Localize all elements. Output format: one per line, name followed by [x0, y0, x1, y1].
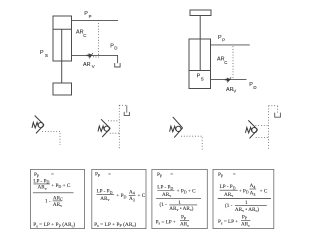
cylinder body right figure [189, 39, 211, 89]
piston rod right figure [199, 16, 201, 71]
svg-text:C: C [83, 33, 86, 38]
tank symbol left figure [115, 63, 120, 67]
pilot lines check valve 4 [255, 106, 277, 150]
svg-text:A3: A3 [250, 191, 256, 197]
piston rod left figure [61, 29, 63, 83]
table box 2 [92, 169, 146, 228]
svg-text:PP: PP [181, 215, 187, 221]
svg-text:D: D [114, 46, 117, 51]
svg-text:=: = [51, 172, 54, 178]
svg-text:ARv • ARc): ARv • ARc) [169, 205, 193, 212]
svg-text:Ps = LP +: Ps = LP + [156, 219, 176, 225]
check valve 2 [98, 119, 110, 137]
svg-text:Ps = LP + PP (ARc): Ps = LP + PP (ARc) [33, 221, 75, 228]
svg-text:D: D [253, 85, 256, 90]
pilot line check valve 1 [42, 131, 60, 145]
svg-text:Ps = LP + PP (ARc): Ps = LP + PP (ARc) [94, 221, 136, 228]
svg-text:A4: A4 [129, 189, 135, 195]
svg-text:PP: PP [157, 172, 163, 178]
cylinder body left figure [53, 16, 72, 61]
tank symbol check valve 2 [124, 112, 129, 116]
table box 1 [31, 169, 85, 228]
formula box4 main bar [218, 197, 271, 199]
svg-text:ARv: ARv [224, 192, 233, 198]
formula box1 main bar [33, 192, 74, 194]
svg-text:+ PD + C: + PD + C [51, 183, 71, 189]
svg-text:ARv • ARc): ARv • ARc) [235, 206, 259, 213]
svg-text:+ C: + C [138, 193, 146, 199]
check valve 3 [170, 117, 183, 138]
wire Pd line right figure [211, 79, 247, 81]
svg-text:ARv: ARv [38, 185, 47, 191]
svg-text:+ C: + C [260, 189, 268, 195]
svg-text:V: V [233, 89, 236, 94]
piston divider left figure [53, 28, 72, 30]
svg-text:ARv: ARv [53, 202, 62, 208]
svg-text:S: S [45, 53, 48, 58]
pilot dotted line right figure [232, 46, 234, 79]
svg-text:PP: PP [95, 172, 101, 178]
svg-text:ARc: ARc [241, 222, 250, 228]
table box 3 [152, 169, 207, 228]
svg-text:+ PD: + PD [116, 193, 126, 199]
load block left figure [53, 83, 72, 95]
svg-text:=: = [170, 172, 173, 178]
svg-text:PP: PP [242, 214, 248, 220]
valve arrow ARv right figure [225, 77, 231, 82]
svg-text:Ps = LP +: Ps = LP + [218, 219, 238, 225]
svg-text:=: = [233, 172, 236, 178]
wire Pd line left figure [72, 55, 118, 63]
svg-text:LP - PD: LP - PD [220, 184, 236, 190]
svg-text:(1 -: (1 - [160, 201, 168, 208]
svg-text:P: P [89, 14, 92, 19]
svg-text:A3: A3 [129, 196, 135, 202]
check valve 4 [246, 120, 258, 138]
svg-text:(1 -: (1 - [225, 202, 233, 209]
svg-text:+ PD + C: + PD + C [177, 188, 197, 194]
table box 4 [213, 169, 274, 228]
pilot line check valve 3 [181, 136, 202, 150]
svg-text:LP - PD: LP - PD [157, 185, 173, 191]
wire Pp line left figure [72, 20, 119, 22]
svg-text:ARv: ARv [100, 196, 109, 202]
tank symbol check valve 4 [275, 113, 281, 118]
svg-text:P: P [222, 38, 225, 43]
pilot lines check valve 2 [108, 105, 127, 149]
orifice dots left figure [93, 56, 97, 58]
svg-text:+ PD: + PD [239, 188, 249, 194]
valve arrow ARv left figure [87, 53, 93, 58]
svg-text:C: C [224, 60, 227, 65]
svg-text:V: V [92, 64, 95, 69]
svg-text:PP: PP [218, 172, 224, 178]
wire Pp line right figure [211, 44, 250, 46]
svg-text:ARc: ARc [180, 222, 189, 228]
svg-text:P: P [40, 50, 44, 56]
svg-text:A4: A4 [250, 183, 256, 189]
svg-text:LP - PD: LP - PD [97, 189, 113, 195]
load block right figure [190, 10, 211, 16]
svg-text:AR: AR [83, 62, 91, 68]
tank feed check valve 2 [126, 105, 128, 112]
pilot dotted line left figure [97, 23, 99, 58]
svg-text:S: S [201, 77, 204, 82]
svg-text:ARv: ARv [162, 192, 171, 198]
check valve 1 [32, 116, 44, 134]
svg-text:=: = [108, 171, 111, 177]
formula box3 main bar [156, 197, 201, 199]
piston divider right figure [189, 70, 211, 72]
svg-text:1 -: 1 - [45, 198, 51, 204]
